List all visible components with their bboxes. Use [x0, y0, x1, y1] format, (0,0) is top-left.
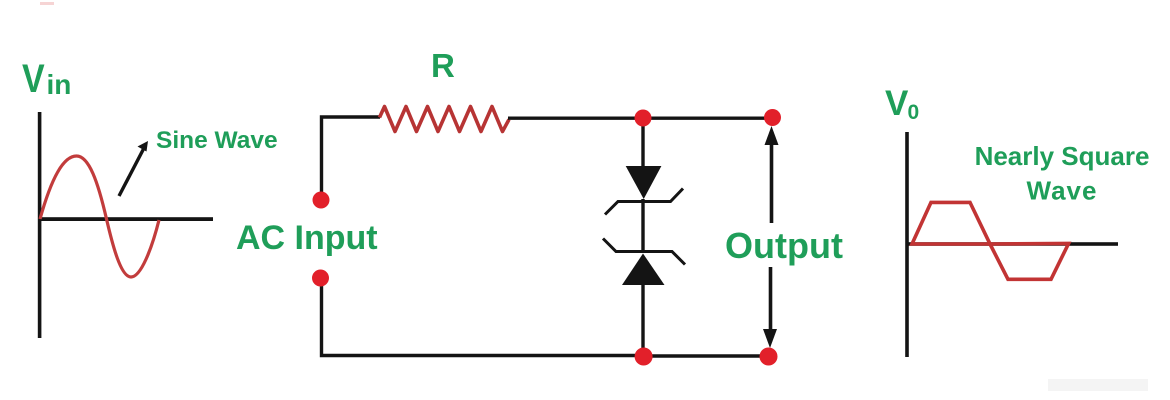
node dot AC input top terminal — [313, 192, 330, 209]
zener diode D1 triangle — [626, 166, 662, 199]
wire bottom right segment — [643, 354, 769, 357]
node dot top middle junction — [635, 110, 652, 127]
sine wave input — [40, 156, 159, 277]
zener D1 cathode bar — [605, 189, 683, 215]
svg-text:V: V — [22, 55, 45, 100]
wire zener branch lower — [641, 285, 644, 356]
wire top left segment — [322, 117, 381, 200]
svg-text:Nearly Square: Nearly Square — [975, 141, 1150, 171]
zener diode D2 triangle — [622, 254, 665, 286]
square wave positive trapezoid — [912, 202, 990, 244]
wire zener branch upper — [641, 118, 644, 168]
svg-text:0: 0 — [908, 101, 920, 124]
svg-text:R: R — [431, 47, 455, 84]
stray red mark top left — [40, 2, 54, 5]
node dot bottom right output terminal — [760, 348, 778, 366]
V0 horizontal axis — [907, 242, 1118, 246]
Vin vertical axis — [38, 112, 42, 338]
svg-text:Wave: Wave — [1027, 176, 1098, 206]
label Nearly Square Wave — [975, 141, 1150, 206]
V0 vertical axis — [905, 132, 909, 357]
wire between zeners — [641, 199, 644, 253]
label Vin — [22, 55, 71, 100]
output arrow double-headed — [763, 126, 779, 348]
svg-text:AC Input: AC Input — [236, 219, 378, 257]
square wave negative trapezoid — [990, 244, 1069, 280]
node dot bottom middle junction — [635, 348, 653, 366]
wire top right segment — [508, 116, 772, 119]
label V0 — [885, 84, 919, 124]
svg-text:V: V — [885, 84, 909, 123]
Vin horizontal axis — [38, 217, 213, 221]
svg-text:Output: Output — [725, 225, 843, 266]
arrow to Sine Wave label — [119, 141, 148, 196]
node dot top right output terminal — [764, 109, 781, 126]
resistor R zigzag — [380, 107, 510, 132]
svg-text:Sine Wave: Sine Wave — [156, 127, 278, 154]
node dot AC input bottom terminal — [312, 270, 329, 287]
faint watermark bottom right — [1048, 379, 1148, 391]
wire left lower segment — [322, 278, 644, 356]
svg-text:in: in — [47, 69, 72, 100]
zener D2 cathode bar — [603, 239, 685, 265]
